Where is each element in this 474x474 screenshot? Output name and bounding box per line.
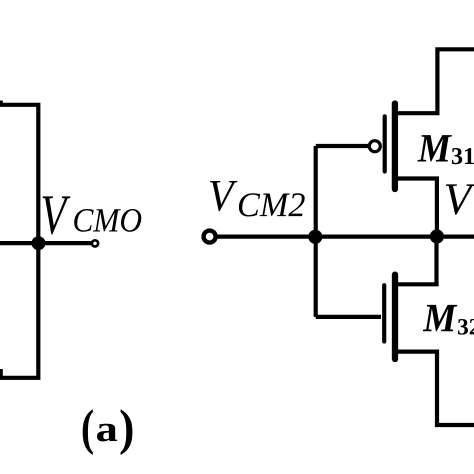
wire: M31 source stub to top rail: [395, 49, 474, 113]
wire: cropped stub tick bottom-left: [0, 369, 3, 379]
wire: M31 drain stub down to junction: [395, 179, 437, 234]
transistor M31 gate bar: [383, 116, 387, 171]
label V_CMO subscript "CMO": [74, 209, 93, 232]
terminal: V_CM2 open-circle input terminal: [204, 231, 216, 243]
label V of cropped right label: [446, 184, 474, 214]
wire: M32 source stub to bottom rail: [395, 352, 474, 425]
transistor M31 channel bar: [392, 104, 398, 190]
label (a) caption open paren: [83, 409, 93, 455]
wire: V_CMO output wire: [0, 241, 91, 245]
node: junction dot at gate column and main net: [308, 230, 322, 244]
label V_CM2 "V": [210, 181, 237, 211]
label M31 subscript "31" (cropped): [452, 148, 462, 164]
wire: main horizontal V_CM2 net: [216, 235, 474, 239]
label V_CM2 subscript "CM2": [239, 193, 260, 216]
label M31 "M": [417, 135, 451, 161]
terminal: V_CMO open-circle terminal: [92, 240, 98, 246]
wire: M32 gate connection: [316, 315, 381, 319]
label M32 "M": [423, 305, 457, 331]
node: junction dot at drain column and main net: [430, 229, 444, 243]
label (a) caption letter a: [97, 424, 117, 442]
wire: cropped stub tick top-left: [0, 101, 3, 107]
transistor M32 gate bar: [382, 285, 386, 341]
wire: M32 drain stub up to junction: [395, 240, 437, 284]
node: junction dot on V_CMO net: [32, 236, 46, 250]
wire: left circuit C-loop (top rail, left vertical, bottom rail): [0, 105, 38, 378]
transistor M31 (PMOS) gate bubble: [369, 141, 380, 152]
wire: gate column vertical (M31 gate down to M32 gate): [314, 146, 318, 317]
label (a) caption close paren: [121, 409, 133, 455]
label M32 subscript "32" (cropped): [458, 319, 468, 335]
label V_CMO "V": [43, 196, 71, 234]
wire: M31 gate connection horizontal: [316, 144, 369, 148]
transistor M32 channel bar: [392, 275, 398, 359]
